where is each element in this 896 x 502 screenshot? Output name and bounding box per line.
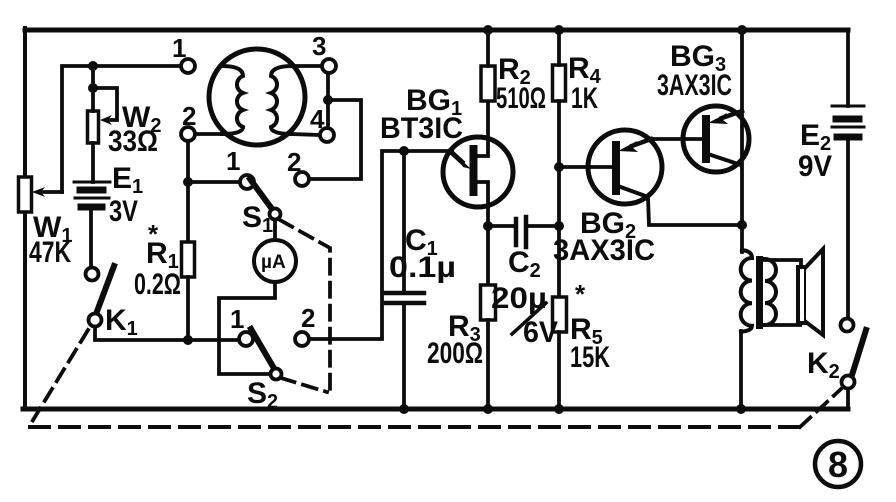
- W1 wiper arrowhead: [32, 187, 45, 197]
- wire C1 upper: [402, 151, 406, 291]
- svg-text:2: 2: [287, 147, 301, 177]
- dashed linkage K2: [800, 389, 841, 427]
- svg-text:C2: C2: [508, 246, 541, 282]
- svg-text:15K: 15K: [570, 341, 610, 374]
- svg-text:2: 2: [301, 303, 315, 333]
- wire primary bottom: [739, 331, 743, 409]
- switch S1 contact1: [240, 175, 254, 189]
- wire to S1 contact1: [188, 180, 240, 184]
- svg-text:E1: E1: [112, 162, 143, 198]
- svg-text:3: 3: [312, 31, 326, 61]
- node junction R4 rail: [554, 25, 564, 35]
- transistor BG2 base bar: [612, 145, 620, 191]
- wire left rail upper: [23, 28, 27, 177]
- capacitor C1 plate top: [386, 291, 424, 296]
- svg-text:510Ω: 510Ω: [496, 82, 546, 115]
- svg-text:0.1µ: 0.1µ: [389, 251, 456, 284]
- transistor BG1 collector lead: [477, 101, 488, 156]
- switch S1 lever: [250, 179, 272, 209]
- resistor R5 body: [553, 297, 567, 332]
- wire R1 bottom: [186, 277, 190, 340]
- wire W2 body top: [91, 88, 95, 111]
- battery E1 plate long2: [75, 197, 109, 200]
- wire secondary bottom lead: [765, 323, 800, 327]
- wire R3 top: [486, 226, 490, 285]
- wire W2 to E1: [91, 143, 95, 182]
- node junction C1 top: [399, 146, 409, 156]
- wire tap to S1 contact2: [309, 100, 361, 179]
- switch K1 bottom contact: [89, 314, 102, 327]
- node junction R5 rail: [554, 404, 564, 414]
- transistor BG3 emitter arrowhead: [708, 113, 728, 124]
- node junction BG2 collector: [737, 220, 747, 230]
- svg-text:BT3IC: BT3IC: [380, 112, 463, 145]
- transistor BG1 base bar: [470, 149, 478, 192]
- switch S1 contact2: [295, 172, 309, 186]
- dashed linkage bottom rail: [30, 425, 800, 429]
- wire BG2 base lead: [559, 165, 612, 169]
- coil terminal 2: [181, 127, 195, 141]
- wire top supply rail: [25, 28, 848, 33]
- svg-text:K1: K1: [105, 304, 138, 340]
- transistor BG3 base bar: [702, 119, 710, 159]
- switch K2 lever: [852, 330, 866, 375]
- svg-text:1: 1: [172, 33, 186, 63]
- svg-text:3V: 3V: [109, 195, 138, 228]
- battery E1 plate thick2: [81, 204, 102, 211]
- battery E2 plate thick1: [836, 116, 859, 123]
- node junction C1 bottom rail: [399, 404, 409, 414]
- wire bottom rail: [23, 407, 848, 412]
- svg-text:4: 4: [310, 104, 325, 134]
- coil terminal 3: [322, 59, 336, 73]
- battery E1 plate thick1: [80, 187, 103, 194]
- switch K2 top contact: [841, 319, 854, 332]
- svg-text:µA: µA: [261, 252, 286, 273]
- svg-text:3AX3IC: 3AX3IC: [657, 69, 732, 102]
- svg-text:0.2Ω: 0.2Ω: [134, 268, 181, 301]
- node junction W2 wiper: [88, 83, 98, 93]
- node junction R3 rail: [483, 404, 493, 414]
- switch S2 lever: [251, 329, 275, 370]
- svg-text:200Ω: 200Ω: [427, 337, 483, 370]
- battery E1 plate long1: [74, 181, 110, 184]
- switch K1 top contact: [86, 268, 99, 281]
- node junction S1 branch: [183, 177, 193, 187]
- wire E1 to K1: [89, 210, 93, 267]
- node junction C2 right: [554, 221, 564, 231]
- wire S2 contact2 to BG1 base: [309, 151, 452, 339]
- transformer core: [756, 256, 763, 329]
- resistor R2 body: [481, 66, 495, 101]
- coil terminal 1: [181, 59, 195, 73]
- resistor W2 33ohm body: [88, 111, 99, 143]
- capacitor C2 plate left: [514, 219, 519, 245]
- node junction BG3 rail: [737, 25, 747, 35]
- battery E2 plate long1: [832, 105, 864, 108]
- wire R4 top: [557, 30, 561, 65]
- svg-text:20µ: 20µ: [491, 282, 547, 315]
- wire W2 top stub: [91, 66, 95, 88]
- node junction primary rail: [736, 404, 746, 414]
- node junction R1 bottom: [183, 335, 193, 345]
- wire BG2 emitter to BG3 base: [650, 137, 701, 141]
- wire BG2 collector down right: [648, 198, 741, 225]
- transistor BG2 emitter diagonal: [632, 139, 651, 146]
- battery E2 plate long2: [832, 126, 864, 129]
- coil right winding: [271, 66, 292, 134]
- switch K1 lever: [96, 266, 114, 314]
- transistor BG2 circle: [588, 130, 662, 204]
- wire terminal4 stub: [292, 134, 320, 135]
- wire R2 top: [486, 30, 490, 66]
- wire left rail lower: [23, 212, 27, 409]
- node junction W2 top: [88, 61, 98, 71]
- node junction BG2 base: [554, 162, 564, 172]
- wire K1 to R1 bottom node: [95, 327, 240, 340]
- battery E2 plate thick2: [837, 134, 859, 141]
- svg-text:33Ω: 33Ω: [108, 125, 158, 158]
- wire R5 top: [557, 226, 561, 297]
- wire E2 to K2: [846, 141, 850, 318]
- node junction R2 rail: [483, 25, 493, 35]
- speaker rectangle: [798, 267, 806, 323]
- wire meter to S2 pivot: [219, 282, 275, 374]
- svg-text:1: 1: [226, 146, 240, 176]
- label C2 slash line: [512, 303, 546, 334]
- transistor BG3 collector diagonal: [708, 154, 741, 165]
- dashed linkage S2: [281, 378, 327, 392]
- svg-text:1: 1: [230, 304, 244, 334]
- transistor BG2 emitter arrowhead: [618, 141, 638, 152]
- wire W2 wiper bracket: [93, 88, 117, 120]
- dashed linkage S1: [280, 220, 330, 393]
- meter uA circle: [254, 240, 296, 282]
- svg-text:3AX3IC: 3AX3IC: [553, 234, 655, 267]
- wire BG3 vertical: [740, 30, 744, 252]
- resistor W1 47K body: [19, 177, 32, 212]
- switch S2 contact2: [295, 332, 309, 346]
- wire secondary top lead: [765, 260, 801, 267]
- wire right rail top: [846, 30, 850, 106]
- coil antenna circle: [209, 49, 305, 145]
- transistor BG3 emitter diagonal: [722, 111, 742, 118]
- wire terminal3 to terminal4: [326, 73, 330, 128]
- resistor R1 body: [182, 242, 195, 277]
- figure number circle 8: [815, 441, 861, 487]
- svg-text:9V: 9V: [798, 150, 832, 183]
- transistor BG3 circle: [683, 106, 749, 172]
- svg-text:8: 8: [828, 444, 848, 485]
- transistor BG1 emitter arrowhead: [456, 155, 471, 169]
- switch S2 contact1: [239, 332, 253, 346]
- svg-text:K2: K2: [807, 347, 840, 383]
- wire S1 pivot to meter: [273, 220, 277, 241]
- transistor BG1 emitter diagonal: [451, 152, 462, 162]
- resistor R3 body: [481, 285, 496, 320]
- svg-text:6V: 6V: [523, 316, 558, 349]
- switch S1 pivot: [270, 209, 281, 220]
- coil left winding: [222, 66, 243, 134]
- transistor BG1 lower lead: [477, 182, 488, 226]
- wire C2 left: [488, 224, 514, 228]
- wire C2 right: [528, 224, 559, 228]
- coil terminal 4: [320, 128, 334, 142]
- wire R3 bottom: [486, 320, 490, 409]
- transformer primary winding: [741, 250, 752, 332]
- capacitor C2 plate right: [524, 217, 529, 247]
- wire C1 lower: [402, 303, 406, 409]
- svg-text:1K: 1K: [571, 82, 598, 115]
- capacitor C1 plate bottom: [386, 301, 424, 306]
- resistor R4 body: [553, 65, 566, 101]
- wire R4 bottom to BG2 base node: [557, 101, 561, 226]
- wire terminal2 stub: [195, 132, 222, 136]
- svg-text:*: *: [575, 279, 586, 309]
- transformer secondary winding: [765, 259, 776, 325]
- switch K2 bottom contact: [842, 376, 855, 389]
- wire K2 to bottom rail: [846, 389, 850, 409]
- dashed linkage K1: [30, 330, 88, 425]
- switch S2 pivot: [271, 369, 282, 380]
- wire terminal2 down: [186, 141, 190, 242]
- svg-text:S2: S2: [247, 377, 278, 413]
- wire terminal3 stub: [292, 64, 322, 68]
- speaker cone: [806, 249, 823, 335]
- svg-text:2: 2: [182, 101, 196, 131]
- W2 wiper arrowhead: [100, 115, 112, 125]
- node junction emitter C2: [483, 221, 493, 231]
- wire W1 wiper vertical up: [62, 66, 181, 192]
- W1 wiper arrow wire: [40, 190, 62, 194]
- svg-text:47K: 47K: [29, 236, 71, 269]
- transistor BG2 collector diagonal: [618, 186, 648, 197]
- wire R5 bottom: [557, 332, 561, 409]
- node junction terminal34: [323, 95, 333, 105]
- transistor BG1 circle: [443, 137, 513, 207]
